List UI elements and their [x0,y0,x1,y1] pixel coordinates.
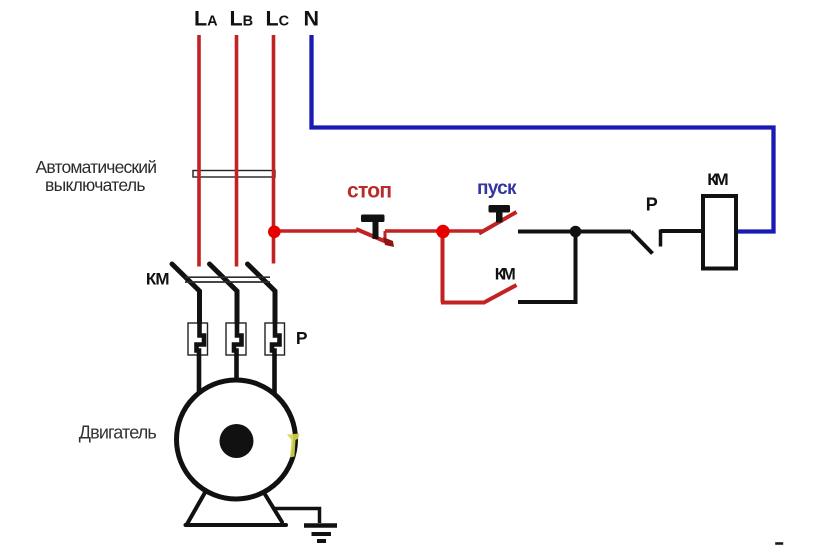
svg-text:пуск: пуск [477,178,517,199]
svg-text:КМ: КМ [707,170,728,189]
svg-text:КМ: КМ [495,266,516,284]
svg-text:Двигатель: Двигатель [79,422,157,442]
svg-text:выключатель: выключатель [45,175,146,195]
svg-text:Р: Р [296,328,308,348]
svg-text:Р: Р [646,195,658,215]
svg-text:КМ: КМ [146,270,170,289]
svg-text:N: N [304,7,320,31]
svg-text:стоп: стоп [347,179,392,202]
